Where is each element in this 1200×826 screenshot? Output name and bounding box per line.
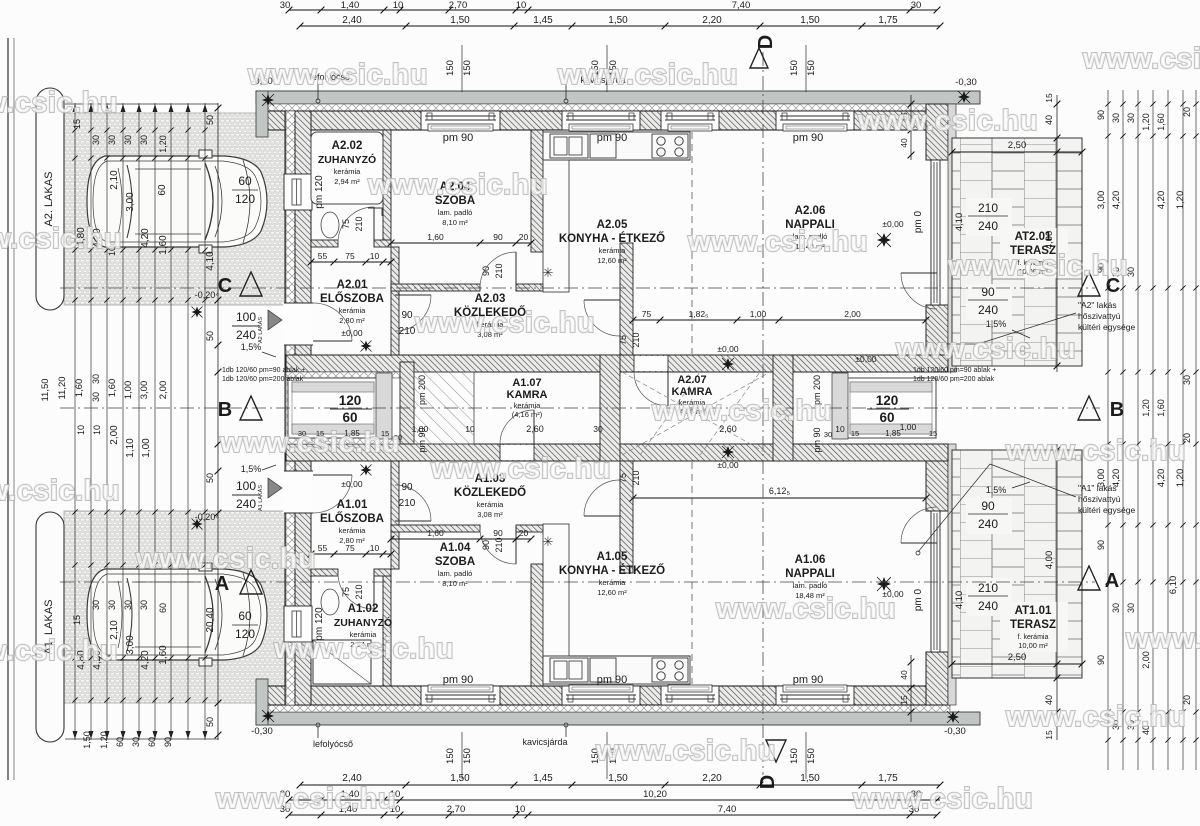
wall A1.04 north (391, 525, 480, 532)
svg-text:10: 10 (92, 425, 102, 435)
svg-text:30: 30 (123, 600, 133, 610)
svg-text:210: 210 (494, 263, 504, 278)
section marker B left (240, 396, 262, 420)
svg-text:www.csic.hu: www.csic.hu (1125, 623, 1200, 655)
window bottom wall W2 pm90 (562, 686, 640, 705)
svg-text:A1.04: A1.04 (440, 542, 471, 554)
top dim row 1 (289, 9, 937, 11)
wall A2.02|A2.04 (383, 130, 391, 240)
svg-text:4,20: 4,20 (1156, 469, 1167, 488)
svg-text:pm 200: pm 200 (417, 375, 427, 405)
svg-text:2,70: 2,70 (449, 0, 468, 11)
kitchen sink A1.05 (550, 658, 588, 682)
svg-text:1,00: 1,00 (141, 438, 152, 458)
svg-text:60: 60 (238, 609, 252, 623)
bay window left 120/60 (288, 378, 378, 438)
door arc A1.04 (515, 528, 517, 564)
middle wall upper (A2 south wall) (286, 355, 948, 372)
svg-text:60: 60 (238, 174, 252, 188)
svg-text:www.csic.hu: www.csic.hu (247, 59, 428, 91)
svg-text:www.csic.hu: www.csic.hu (687, 226, 868, 258)
terrace door arc A2.06 (901, 272, 937, 274)
middle wall lower (A1 north wall) (286, 444, 948, 461)
svg-text:50: 50 (205, 717, 215, 727)
window bottom wall W1 pm90 (421, 686, 500, 705)
svg-text:4,00: 4,00 (1044, 231, 1055, 250)
svg-text:±0,00: ±0,00 (882, 219, 903, 229)
svg-text:✳: ✳ (543, 265, 554, 280)
svg-text:75: 75 (642, 309, 652, 319)
wall A2.04|A2.05 (531, 130, 543, 252)
stair flight A1.07 (414, 372, 474, 444)
svg-text:www.csic.hu: www.csic.hu (651, 395, 832, 427)
svg-text:www.csic.hu: www.csic.hu (0, 475, 120, 507)
svg-text:120: 120 (235, 627, 255, 641)
svg-text:4,00: 4,00 (1044, 551, 1055, 570)
svg-text:ELŐSZOBA: ELŐSZOBA (320, 292, 384, 305)
window sill W3 bottom (668, 685, 712, 692)
svg-text:60: 60 (115, 737, 125, 747)
svg-text:30: 30 (1111, 113, 1121, 123)
svg-text:40: 40 (1044, 115, 1054, 125)
svg-text:20: 20 (519, 528, 529, 538)
svg-text:10: 10 (835, 424, 845, 434)
svg-text:210: 210 (631, 332, 641, 347)
svg-text:1,20: 1,20 (1175, 469, 1186, 488)
svg-text:30: 30 (123, 135, 133, 145)
svg-text:75: 75 (618, 473, 628, 483)
wall A1.01|A1.03 (391, 461, 399, 569)
svg-text:100: 100 (236, 310, 256, 324)
kitchen hob A2.05 (652, 134, 688, 158)
svg-text:ZUHANYZÓ: ZUHANYZÓ (334, 616, 392, 629)
svg-text:lefolyócső: lefolyócső (313, 739, 353, 749)
svg-text:1,45: 1,45 (533, 773, 553, 784)
svg-text:SZOBA: SZOBA (435, 556, 475, 568)
middle insulation lower (286, 438, 406, 444)
svg-text:1,00: 1,00 (900, 422, 917, 432)
section marker C left (240, 272, 262, 296)
svg-text:210: 210 (978, 581, 998, 595)
svg-text:A: A (1105, 570, 1119, 592)
terrace dim 2.50 bottom (952, 663, 1082, 665)
toilet A1.02 (321, 589, 339, 615)
wall A1.02 north (311, 569, 338, 576)
svg-text:10: 10 (370, 543, 380, 553)
svg-text:90: 90 (481, 266, 491, 276)
svg-text:3,08 m²: 3,08 m² (477, 510, 503, 519)
exterior gray plinth band bottom (256, 712, 980, 725)
right terrace chain bottom (1056, 444, 1058, 740)
svg-text:pm 0: pm 0 (913, 588, 924, 611)
window left wall pm120 (A1.02) (284, 606, 312, 642)
driveway paving lower (64, 511, 286, 703)
door arc A2.04 (515, 252, 517, 288)
svg-text:A1.02: A1.02 (348, 603, 379, 615)
svg-text:150: 150 (445, 748, 456, 764)
svg-text:www.csic.hu: www.csic.hu (0, 87, 118, 119)
svg-text:7,40: 7,40 (718, 804, 737, 815)
left dim ticks grid (72, 127, 77, 132)
wall A2.02 south (311, 240, 338, 247)
svg-text:100: 100 (236, 479, 256, 493)
svg-text:120: 120 (339, 393, 362, 408)
svg-text:90: 90 (981, 285, 995, 299)
section marker D top (750, 48, 768, 68)
svg-text:www.csic.hu: www.csic.hu (852, 783, 1033, 815)
svg-text:1,00: 1,00 (750, 309, 767, 319)
svg-text:C: C (218, 275, 232, 297)
svg-text:1,20: 1,20 (1175, 191, 1186, 210)
svg-text:210: 210 (631, 470, 641, 485)
door arc A1.03-A1.05 (584, 515, 620, 517)
svg-text:2,10: 2,10 (109, 170, 120, 190)
entry door leaf A1.01 (313, 474, 352, 476)
svg-text:2,20: 2,20 (702, 773, 722, 784)
svg-text:90: 90 (493, 528, 503, 538)
svg-text:40: 40 (899, 670, 909, 680)
left wall corner gray wrap top (256, 91, 268, 137)
svg-text:±0,00: ±0,00 (717, 344, 738, 354)
left exterior wall hatched (295, 111, 311, 705)
svg-text:kerámia: kerámia (514, 401, 542, 410)
svg-text:1db 120/60 pm=90 ablak +: 1db 120/60 pm=90 ablak + (913, 367, 996, 374)
svg-text:30: 30 (824, 430, 832, 439)
svg-text:30: 30 (91, 392, 101, 402)
stair dashed lines A2.07 (622, 372, 770, 455)
svg-text:1,50: 1,50 (82, 731, 92, 749)
svg-text:±0,00: ±0,00 (341, 479, 362, 489)
window sill W1 bottom (428, 685, 493, 692)
svg-text:30: 30 (91, 374, 101, 384)
svg-text:90: 90 (981, 499, 995, 513)
entry arrow triangle bottom (268, 478, 282, 498)
svg-text:30: 30 (1182, 375, 1192, 385)
svg-text:2,20: 2,20 (702, 15, 722, 26)
svg-text:f. kerámia: f. kerámia (1018, 634, 1049, 641)
kitchen tall cabinet A1.05 (543, 524, 569, 656)
svg-text:2,40: 2,40 (342, 15, 362, 26)
svg-text:hőszivattyú: hőszivattyú (1078, 494, 1121, 504)
svg-text:www.csic.hu: www.csic.hu (1005, 701, 1186, 733)
capsule A2 LAKAS (36, 88, 64, 310)
left dim vertical lines (74, 103, 76, 740)
svg-text:30: 30 (280, 0, 291, 11)
shower tray A1.02 (313, 640, 371, 684)
svg-text:10: 10 (516, 0, 527, 11)
svg-text:15: 15 (851, 429, 859, 438)
svg-text:12,60 m²: 12,60 m² (597, 256, 627, 265)
svg-text:75: 75 (345, 251, 355, 261)
bay jamb left (376, 373, 392, 439)
door arc A2.07 (667, 372, 669, 406)
svg-text:90: 90 (481, 540, 491, 550)
window sill W4 top (783, 124, 847, 131)
svg-text:-0,30: -0,30 (955, 77, 977, 88)
level star nappali top (722, 358, 734, 370)
svg-text:lam. padló: lam. padló (438, 569, 473, 578)
terrace 90/240 top (966, 284, 1012, 320)
svg-text:120: 120 (235, 192, 255, 206)
svg-text:10: 10 (393, 0, 404, 11)
svg-text:90: 90 (493, 232, 503, 242)
svg-text:1db 120/60 pm=90 ablak +: 1db 120/60 pm=90 ablak + (222, 367, 305, 374)
svg-text:11,50: 11,50 (40, 378, 51, 401)
svg-text:kerámia: kerámia (477, 500, 505, 509)
bay window right 120/60 (846, 378, 936, 438)
section line B-B (60, 407, 1100, 409)
right small chain 15/40 bottom (910, 655, 912, 722)
svg-text:75: 75 (618, 335, 628, 345)
svg-text:A1.05: A1.05 (597, 551, 628, 563)
svg-text:10: 10 (76, 425, 86, 435)
svg-text:A: A (215, 573, 229, 595)
left big chain (217, 103, 219, 740)
svg-text:30: 30 (1126, 113, 1136, 123)
svg-text:2,00: 2,00 (109, 425, 120, 445)
svg-text:www.csic.hu: www.csic.hu (135, 543, 316, 575)
corner bracket mark (368, 208, 382, 216)
right terrace chain top (1056, 95, 1058, 372)
window top wall W1 pm90 (421, 111, 500, 130)
svg-text:A2.01: A2.01 (337, 279, 368, 291)
svg-text:120: 120 (876, 393, 899, 408)
svg-text:kültéri egysége: kültéri egysége (1078, 322, 1135, 332)
svg-text:KONYHA - ÉTKEZŐ: KONYHA - ÉTKEZŐ (559, 564, 665, 577)
svg-text:60: 60 (157, 184, 168, 196)
dims row A1.02 (311, 553, 391, 555)
svg-text:30: 30 (911, 0, 922, 11)
svg-text:kerámia: kerámia (599, 578, 627, 587)
toilet A2.02 (321, 212, 339, 238)
svg-text:A2.03: A2.03 (475, 293, 506, 305)
terrace interior labels top (966, 198, 1012, 236)
svg-text:pm 90: pm 90 (443, 132, 474, 144)
left exterior wall outer edge line (284, 111, 286, 705)
terrace AT2.01 tiles (952, 138, 1082, 366)
wall A2.01|A2.03 (391, 247, 399, 355)
svg-text:30: 30 (139, 135, 149, 145)
svg-text:A2.06: A2.06 (795, 205, 826, 217)
door arc A1.02 (373, 573, 375, 609)
svg-text:B: B (1110, 399, 1124, 421)
door arc A2.02 (373, 207, 375, 243)
svg-text:50: 50 (205, 331, 215, 341)
window bottom wall W3 pm90 (661, 686, 719, 705)
svg-text:A2 LAKÁS: A2 LAKÁS (257, 317, 264, 343)
svg-text:210: 210 (978, 201, 998, 215)
svg-text:kerámia: kerámia (599, 246, 627, 255)
svg-text:1db 120/60 pm=200 ablak: 1db 120/60 pm=200 ablak (913, 376, 995, 383)
svg-text:1,60: 1,60 (1156, 399, 1166, 417)
svg-text:8,10 m²: 8,10 m² (442, 218, 468, 227)
level star entry bottom (361, 465, 372, 476)
svg-text:50: 50 (205, 115, 215, 125)
dims row A2.02 (311, 261, 391, 263)
terrace AT1.01 label panel (1000, 602, 1068, 652)
svg-text:1,20: 1,20 (1141, 399, 1151, 417)
svg-text:2,00: 2,00 (844, 309, 861, 319)
svg-text:±0,00: ±0,00 (717, 460, 738, 470)
kitchen fridge A1.05 (590, 658, 616, 682)
svg-text:90: 90 (163, 737, 173, 747)
svg-text:11,20: 11,20 (57, 376, 68, 399)
svg-text:A2.07: A2.07 (677, 374, 706, 386)
svg-text:60: 60 (879, 410, 894, 425)
middle wall between kamras (600, 355, 620, 461)
svg-text:3,00: 3,00 (139, 381, 150, 400)
svg-text:3,00: 3,00 (125, 192, 136, 212)
svg-text:50: 50 (205, 473, 215, 483)
svg-text:kavicsjárda: kavicsjárda (522, 737, 567, 747)
svg-text:2,50: 2,50 (1008, 652, 1027, 663)
svg-text:20: 20 (519, 232, 529, 242)
svg-text:www.csic.hu: www.csic.hu (219, 427, 400, 459)
dims row szoba A2.04 (391, 242, 531, 244)
svg-text:20,40: 20,40 (205, 607, 216, 632)
left dim field top edge (65, 103, 218, 105)
svg-text:15: 15 (929, 429, 937, 438)
svg-text:150: 150 (789, 60, 800, 76)
svg-text:30: 30 (131, 737, 141, 747)
svg-text:210: 210 (354, 584, 364, 599)
svg-text:www.csic.hu: www.csic.hu (367, 169, 548, 201)
svg-text:6,12₅: 6,12₅ (769, 486, 791, 496)
right exterior wall above middle (926, 305, 948, 372)
svg-text:1,60: 1,60 (1156, 113, 1166, 131)
window sill W3 top (668, 124, 712, 131)
svg-text:150: 150 (462, 60, 473, 76)
svg-text:30: 30 (91, 600, 101, 610)
svg-text:www.csic.hu: www.csic.hu (1005, 435, 1186, 467)
right exterior wall below middle (926, 444, 948, 511)
svg-text:10: 10 (465, 424, 475, 434)
svg-text:150: 150 (789, 748, 800, 764)
right small chain 15/40 top (910, 95, 912, 160)
exterior wall insulation bottom (266, 705, 950, 712)
svg-text:www.csic.hu: www.csic.hu (430, 453, 611, 485)
section line C-C (60, 287, 1095, 289)
svg-text:B: B (218, 399, 232, 421)
terrace dim 2.50 top (952, 151, 1082, 153)
kitchen fridge A2.05 (590, 134, 616, 158)
svg-text:1,82₅: 1,82₅ (689, 309, 709, 319)
svg-text:1,20: 1,20 (99, 731, 109, 749)
svg-text:10: 10 (370, 251, 380, 261)
middle wall left of A1.07 (400, 362, 414, 444)
svg-text:pm 90: pm 90 (812, 427, 822, 452)
svg-text:4,20: 4,20 (1111, 191, 1122, 210)
svg-text:90: 90 (1096, 540, 1106, 550)
entry door opening A1.01 (283, 471, 313, 513)
entry door leaf A2.01 (313, 340, 352, 342)
svg-text:15: 15 (72, 119, 82, 129)
svg-text:www.csic.hu: www.csic.hu (215, 783, 396, 815)
right exterior wall top segment (926, 104, 948, 160)
terrace interior labels bottom (966, 578, 1012, 616)
svg-text:KÖZLEKEDŐ: KÖZLEKEDŐ (454, 486, 526, 499)
svg-text:www.csic.hu: www.csic.hu (557, 59, 738, 91)
svg-text:1,50: 1,50 (608, 15, 628, 26)
svg-text:ZUHANYZÓ: ZUHANYZÓ (318, 153, 376, 166)
kitchen hob A1.05 (652, 658, 688, 682)
svg-text:A2.05: A2.05 (597, 219, 628, 231)
svg-text:www.csic.hu: www.csic.hu (414, 307, 595, 339)
top dim row 2 (300, 25, 940, 27)
svg-text:60: 60 (342, 410, 357, 425)
svg-text:www.csic.hu: www.csic.hu (595, 735, 776, 767)
svg-text:TERASZ: TERASZ (1010, 619, 1056, 631)
svg-text:1,40: 1,40 (341, 0, 360, 11)
svg-text:40: 40 (899, 138, 909, 148)
window sill W2 bottom (569, 685, 633, 692)
kitchen sink A2.05 (550, 134, 588, 158)
window top wall W4 pm90 (776, 111, 854, 130)
svg-text:210: 210 (399, 498, 416, 509)
svg-text:ELŐSZOBA: ELŐSZOBA (320, 512, 384, 525)
svg-text:1,50: 1,50 (800, 773, 820, 784)
middle wall right of A2.07 (773, 355, 793, 461)
room label A2.02 ZUHANYZO (311, 132, 383, 204)
svg-text:"A1" lakás: "A1" lakás (1078, 483, 1117, 493)
svg-text:A1.01: A1.01 (337, 499, 368, 511)
svg-text:60: 60 (147, 737, 157, 747)
dashed room divider A1.05|A1.06 (691, 462, 693, 684)
window sill W2 top (569, 124, 633, 131)
svg-text:1,60: 1,60 (107, 379, 118, 398)
svg-text:1,50: 1,50 (800, 15, 820, 26)
svg-text:55: 55 (318, 543, 328, 553)
svg-text:10: 10 (515, 804, 526, 815)
svg-text:www.csic.hu: www.csic.hu (715, 593, 896, 625)
svg-text:lam. padló: lam. padló (438, 208, 473, 217)
svg-text:10,20: 10,20 (643, 789, 667, 800)
driveway paving upper (64, 113, 286, 305)
svg-text:2,50: 2,50 (1008, 140, 1027, 151)
bottom dim row 3 (289, 814, 937, 816)
svg-text:1,60: 1,60 (427, 528, 444, 538)
kitchen counter A2.05 (543, 132, 690, 160)
svg-text:www.csic.hu: www.csic.hu (273, 633, 454, 665)
svg-text:NAPPALI: NAPPALI (785, 568, 835, 580)
svg-text:210: 210 (399, 326, 416, 337)
wall A2.04 south (391, 284, 480, 291)
svg-text:1,45: 1,45 (533, 15, 553, 26)
svg-text:90: 90 (401, 310, 413, 321)
svg-text:30: 30 (1111, 603, 1121, 613)
svg-text:4,20: 4,20 (140, 228, 151, 248)
svg-text:15: 15 (72, 615, 82, 625)
svg-text:240: 240 (978, 599, 998, 613)
svg-text:240: 240 (978, 303, 998, 317)
dims row nappali top (633, 319, 926, 321)
right wall gray edge top (948, 104, 956, 372)
svg-text:KONYHA - ÉTKEZŐ: KONYHA - ÉTKEZŐ (559, 232, 665, 245)
car upper (87, 150, 267, 253)
svg-text:6,10: 6,10 (1168, 576, 1179, 595)
svg-text:KAMRA: KAMRA (507, 389, 548, 401)
svg-text:240: 240 (236, 497, 256, 511)
window top wall W2 pm90 (562, 111, 640, 130)
window bottom wall W4 pm90 (776, 686, 854, 705)
terrace door arc A1.06 (901, 542, 937, 544)
svg-text:30: 30 (593, 424, 603, 434)
svg-text:10,00 m²: 10,00 m² (1018, 641, 1048, 650)
exterior wall insulation top (266, 104, 950, 111)
svg-text:1,50: 1,50 (450, 15, 470, 26)
svg-text:"A2" lakás: "A2" lakás (1078, 300, 1117, 310)
svg-text:210: 210 (494, 537, 504, 552)
